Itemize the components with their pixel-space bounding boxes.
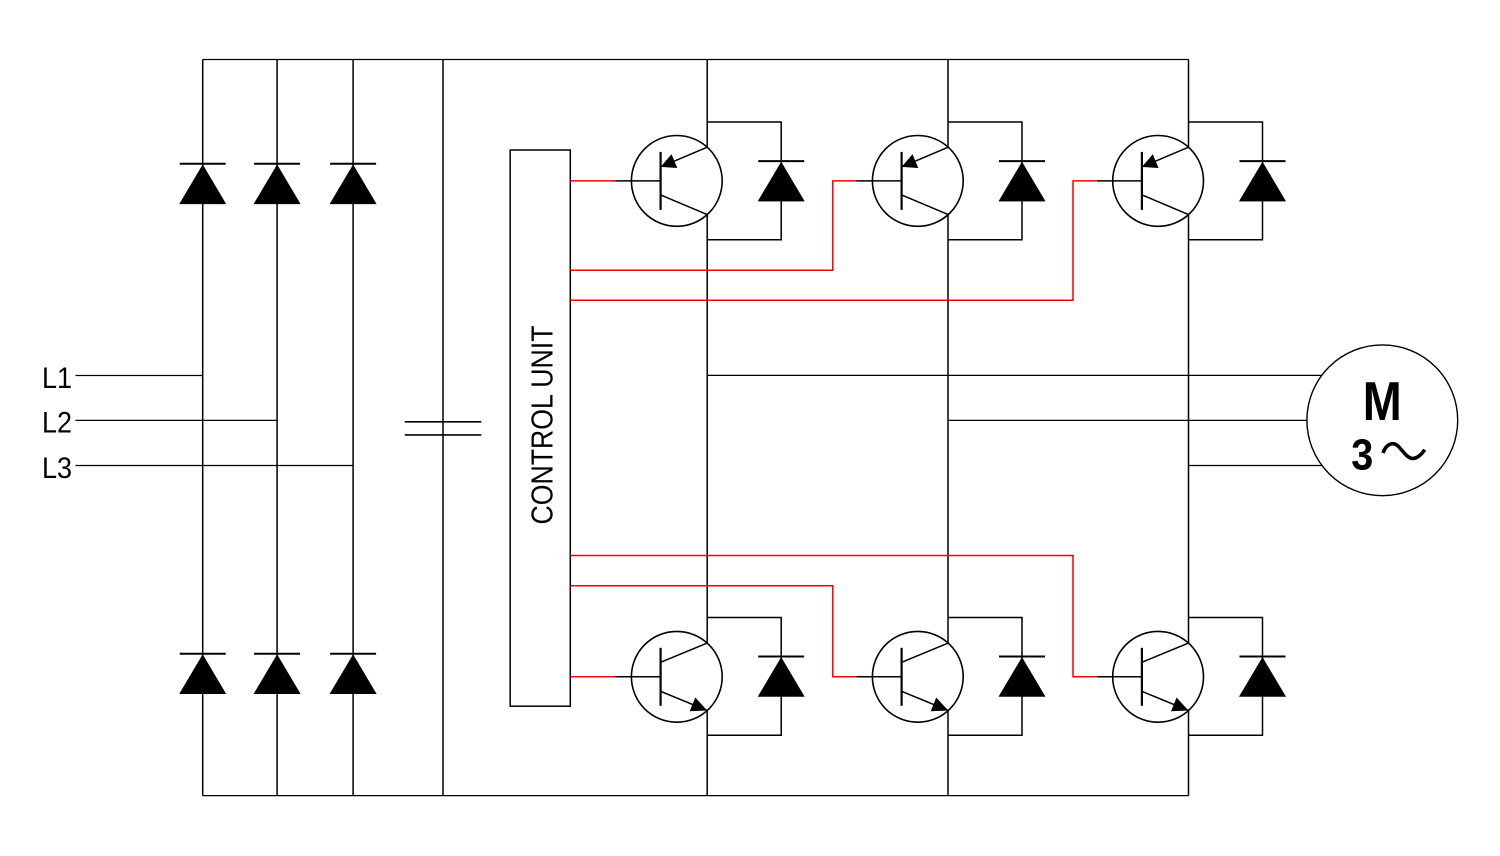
transistor Q4 (bottom, phase U) bbox=[616, 631, 723, 722]
diode D7 (freewheel of Q1) bbox=[758, 161, 804, 201]
diode D8 (freewheel of Q2) bbox=[999, 161, 1045, 201]
wire: rectifier leg 1 vertical bbox=[202, 60, 204, 796]
wire: bottom DC bus bbox=[203, 795, 1189, 797]
wire: freewheel loop Q2 bbox=[948, 122, 1022, 240]
wire: DC-link capacitor branch vertical bbox=[442, 60, 444, 796]
diode D1 (rectifier top, leg 1) bbox=[180, 164, 226, 204]
wire: gate drive to Q4 (red) bbox=[570, 676, 615, 678]
wire: inverter leg 1 vertical (middle segment) bbox=[706, 215, 708, 643]
transistor Q6 (bottom, phase W) bbox=[1097, 631, 1204, 722]
wire: inverter leg 1 vertical (upper segment) bbox=[706, 60, 708, 148]
wire: inverter leg 2 vertical (lower segment) bbox=[947, 711, 949, 796]
wire: inverter leg 2 vertical (upper segment) bbox=[947, 60, 949, 148]
wire: gate drive to Q2 (red) bbox=[570, 181, 856, 270]
motor M1 circle bbox=[1307, 345, 1458, 496]
diode D6 (rectifier bottom, leg 3) bbox=[330, 654, 376, 694]
capacitor C1 plate 2 bbox=[405, 434, 482, 436]
wire: L2 input line bbox=[76, 419, 278, 421]
wire: freewheel loop Q1 (top edge, right side, bottom edge) bbox=[707, 122, 781, 240]
svg-text:L2: L2 bbox=[42, 407, 72, 440]
diode D5 (rectifier bottom, leg 2) bbox=[254, 654, 300, 694]
diode D11 (freewheel of Q5) bbox=[999, 657, 1045, 697]
capacitor C1 plate 1 bbox=[405, 421, 482, 423]
svg-text:CONTROL UNIT: CONTROL UNIT bbox=[525, 326, 559, 525]
control unit box U1 bbox=[510, 150, 570, 706]
wire: L3 input line bbox=[76, 465, 354, 467]
wire: L1 input line bbox=[76, 375, 203, 377]
diode D10 (freewheel of Q4) bbox=[758, 657, 804, 697]
diode D2 (rectifier top, leg 2) bbox=[254, 164, 300, 204]
wire: top DC bus bbox=[203, 59, 1189, 61]
transistor Q2 (top, phase V) bbox=[857, 136, 964, 227]
svg-text:L3: L3 bbox=[42, 452, 72, 485]
wire: inverter leg 2 vertical (middle segment) bbox=[947, 215, 949, 643]
wire: gate drive to Q5 (red) bbox=[570, 586, 856, 677]
diode D4 (rectifier bottom, leg 1) bbox=[180, 654, 226, 694]
transistor Q5 (bottom, phase V) bbox=[857, 631, 964, 722]
transistor Q3 (top, phase W) bbox=[1097, 136, 1204, 227]
wire: gate drive to Q1 (red) bbox=[570, 180, 615, 182]
wire: rectifier leg 3 vertical bbox=[352, 60, 354, 796]
wire: motor phase W output bbox=[1189, 465, 1322, 467]
svg-text:M: M bbox=[1363, 370, 1402, 432]
svg-text:L1: L1 bbox=[42, 362, 72, 395]
wire: freewheel loop Q6 bbox=[1189, 618, 1263, 736]
wire: motor phase U output bbox=[707, 374, 1321, 376]
motor M1 tilde (AC symbol) bbox=[1383, 444, 1425, 459]
wire: rectifier leg 2 vertical bbox=[276, 60, 278, 796]
wire: motor phase V output bbox=[948, 419, 1307, 421]
wire: inverter leg 1 vertical (lower segment) bbox=[706, 711, 708, 796]
wire: freewheel loop Q5 bbox=[948, 618, 1022, 736]
diode D3 (rectifier top, leg 3) bbox=[330, 164, 376, 204]
diode D9 (freewheel of Q3) bbox=[1240, 161, 1286, 201]
wire: inverter leg 3 vertical (lower segment) bbox=[1188, 711, 1190, 796]
wire: inverter leg 3 vertical (middle segment) bbox=[1188, 215, 1190, 643]
wire: inverter leg 3 vertical (upper segment) bbox=[1188, 60, 1190, 148]
diode D12 (freewheel of Q6) bbox=[1240, 657, 1286, 697]
wire: freewheel loop Q3 bbox=[1189, 122, 1263, 240]
wire: gate drive to Q3 (red) bbox=[570, 181, 1097, 300]
transistor Q1 (top, phase U) bbox=[616, 136, 723, 227]
wire: gate drive to Q6 (red) bbox=[570, 556, 1097, 677]
wire: freewheel loop Q4 bbox=[707, 618, 781, 736]
svg-text:3: 3 bbox=[1351, 431, 1373, 480]
